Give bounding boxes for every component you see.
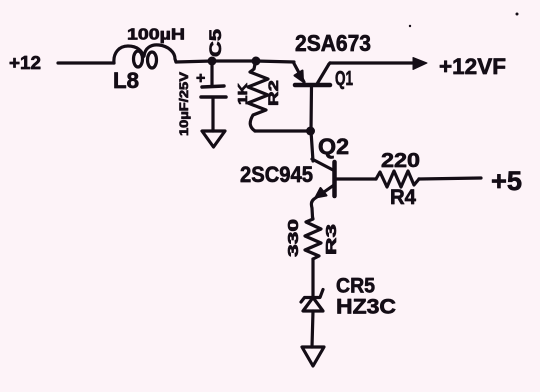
node junction dot at C5 [208, 57, 217, 66]
svg-text:+: + [196, 70, 205, 87]
wire CR5 to ground [312, 311, 313, 347]
wire Q1 base junction down to Q2 collector [311, 131, 313, 161]
svg-text:Q2: Q2 [318, 134, 349, 159]
svg-text:+12: +12 [9, 53, 41, 73]
svg-text:R4: R4 [390, 186, 416, 209]
wire from +12 to L8 [58, 61, 114, 64]
zener diode CR5 [301, 290, 323, 312]
capacitor C5 [201, 63, 226, 131]
wire L8 to node C5 [176, 61, 212, 62]
wire Q2 base to R4 [336, 177, 376, 180]
resistor R3 [305, 217, 321, 259]
resistor R4 [376, 171, 419, 187]
node junction dot at Q1 base / Q2 collector [306, 127, 315, 136]
svg-text:HZ3C: HZ3C [336, 296, 396, 319]
svg-text:+5: +5 [491, 166, 522, 196]
svg-text:R2: R2 [265, 80, 281, 106]
wire Q1 collector to +12VF arrow [330, 61, 414, 64]
arrowhead to +12VF [413, 58, 427, 70]
resistor R2 [248, 64, 268, 131]
speck [409, 25, 411, 27]
wire R2 bottom to Q1 base junction [255, 129, 310, 132]
ground under C5 [202, 131, 225, 147]
wire R2 node to Q1 emitter [256, 61, 294, 62]
svg-text:L8: L8 [113, 68, 139, 93]
wire R4 to +5 [419, 178, 481, 179]
transistor Q2 (2SC945 NPN) [311, 159, 334, 217]
svg-text:2SA673: 2SA673 [295, 30, 371, 56]
inductor L8 [114, 45, 176, 68]
svg-text:R3: R3 [323, 224, 340, 255]
svg-text:CR5: CR5 [336, 274, 375, 298]
svg-text:1K: 1K [235, 82, 250, 105]
svg-text:330: 330 [285, 219, 302, 257]
svg-text:C5: C5 [206, 29, 225, 57]
svg-text:220: 220 [381, 150, 420, 172]
wire R3 to CR5 [311, 259, 314, 297]
wire C5 node to R2 node [212, 59, 256, 62]
svg-text:+12VF: +12VF [439, 54, 506, 79]
node junction dot at R2 top [252, 57, 261, 66]
svg-text:2SC945: 2SC945 [240, 162, 313, 187]
svg-text:Q1: Q1 [335, 68, 353, 90]
speck [516, 13, 519, 16]
ground under CR5 [302, 347, 324, 366]
svg-text:100µH: 100µH [127, 27, 185, 44]
svg-text:10µF/25V: 10µF/25V [177, 72, 191, 136]
transistor Q1 (2SA673 PNP) [294, 63, 330, 131]
